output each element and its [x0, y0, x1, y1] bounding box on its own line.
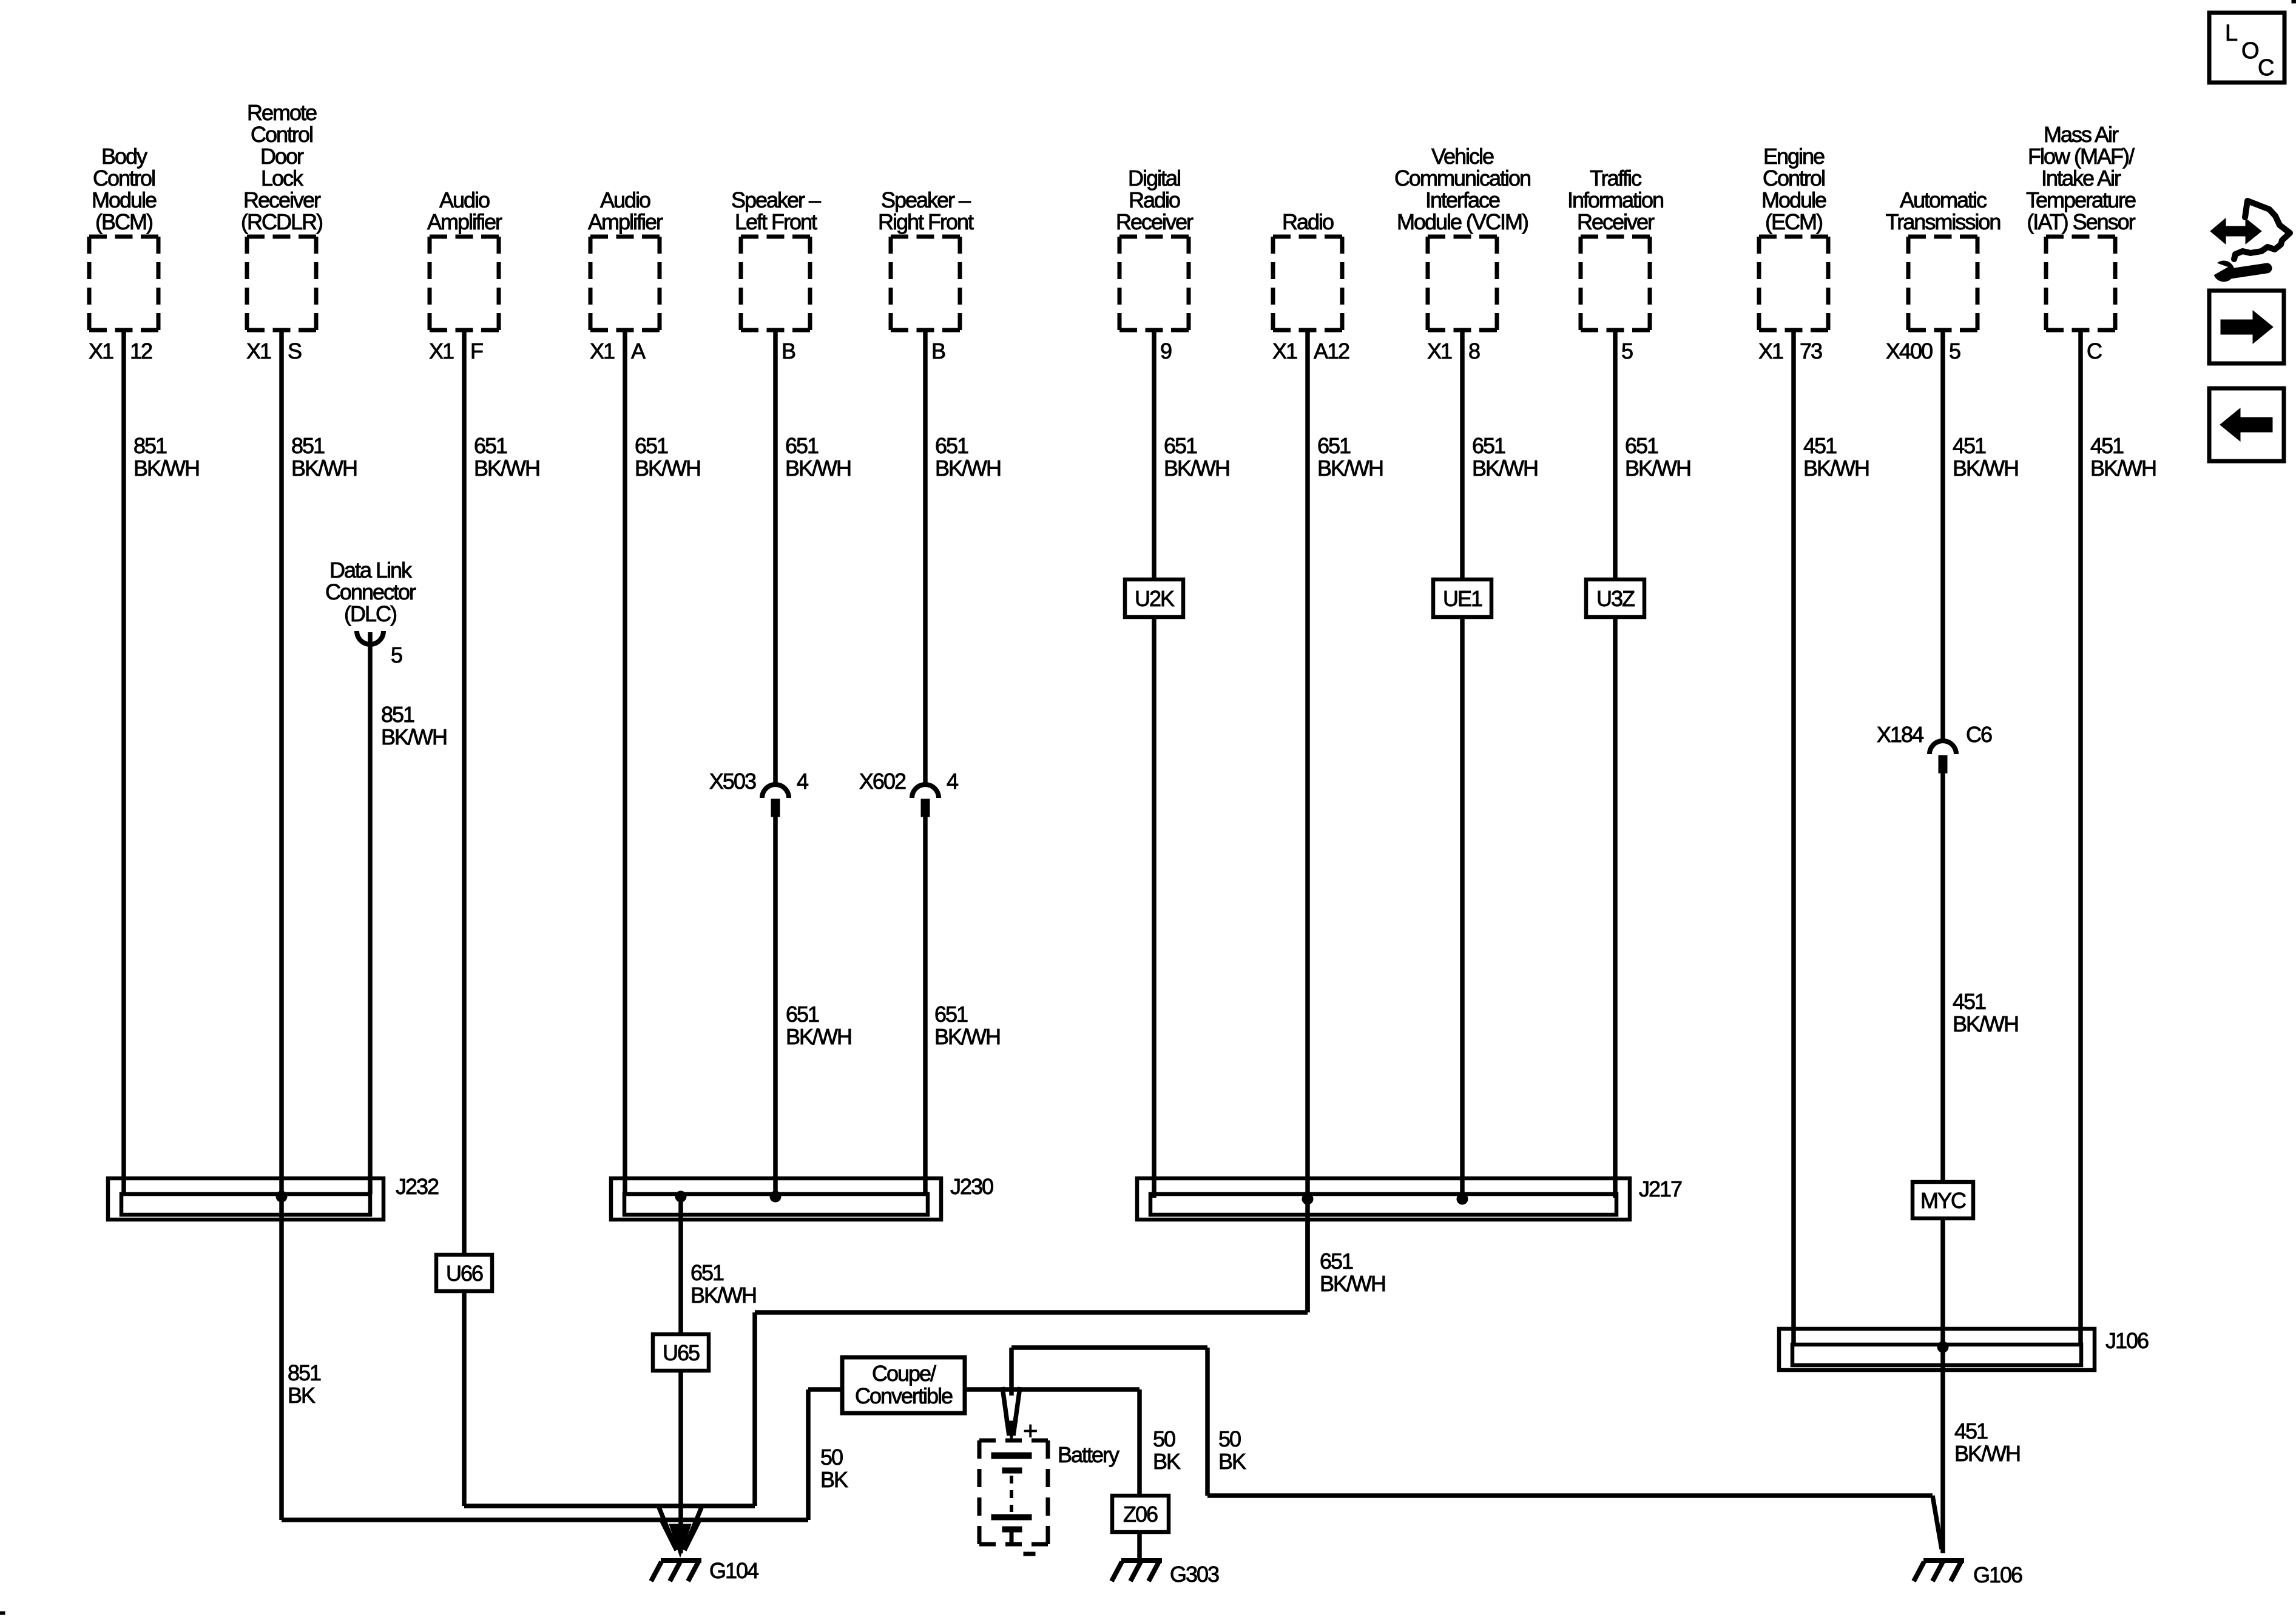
svg-text:BK/WH: BK/WH [635, 456, 700, 481]
wire 651 BK/WH from J230 to U65 [678, 1198, 683, 1334]
svg-text:451: 451 [2090, 433, 2124, 458]
label box Coupe/Convertible [842, 1357, 965, 1413]
svg-text:G104: G104 [709, 1558, 758, 1583]
connector module Speaker - Right Front [878, 187, 974, 363]
svg-text:U66: U66 [446, 1261, 483, 1286]
wire 50 BK Z06 vertical upper [1137, 1389, 1142, 1496]
svg-text:Body: Body [101, 144, 147, 169]
svg-text:9: 9 [1160, 339, 1172, 363]
svg-text:651: 651 [1472, 433, 1505, 458]
wire 651 BK/WH down to G104 bus [752, 1312, 757, 1506]
wire label 651 BK/WH below X602 [934, 1002, 1000, 1049]
node splice J230 dot B [770, 1191, 781, 1202]
connector module Traffic Information Receiver [1567, 166, 1663, 363]
svg-text:+: + [1023, 1416, 1038, 1445]
option code UE1 [1433, 579, 1491, 617]
wire label 651 BK/WH below J217 [1320, 1249, 1385, 1296]
connector X602 pin 4 [912, 785, 939, 817]
svg-text:651: 651 [1164, 433, 1197, 458]
wire 651 BK/WH Speaker RF lower [923, 817, 928, 1194]
svg-text:Engine: Engine [1763, 144, 1825, 169]
svg-text:651: 651 [474, 433, 507, 458]
svg-text:U3Z: U3Z [1596, 586, 1635, 611]
page artifact bottom left [0, 1612, 5, 1615]
svg-text:651: 651 [1625, 433, 1658, 458]
svg-text:Automatic: Automatic [1900, 187, 1987, 212]
svg-text:(DLC): (DLC) [344, 601, 396, 626]
wire 50 BK Coupe left horizontal [808, 1387, 842, 1392]
svg-text:Audio: Audio [439, 187, 490, 212]
wire label 451 BK/WH below J106 [1954, 1419, 2020, 1466]
svg-text:Control: Control [1763, 166, 1825, 191]
wire 451 BK/WH from ECM to J106 [1791, 330, 1796, 1345]
junction slants converging into G104 [658, 1506, 702, 1557]
wire 651 BK/WH U3Z to J217 [1613, 617, 1618, 1198]
svg-text:BK/WH: BK/WH [291, 456, 357, 481]
option code U3Z [1586, 579, 1644, 617]
svg-text:(BCM): (BCM) [95, 209, 152, 234]
svg-text:BK/WH: BK/WH [474, 456, 539, 481]
svg-text:U2K: U2K [1135, 586, 1175, 611]
wire label 451 BK/WH at x=2956 [1803, 433, 1869, 481]
svg-text:BK/WH: BK/WH [1625, 456, 1690, 481]
svg-text:X1: X1 [590, 339, 615, 363]
svg-text:651: 651 [1317, 433, 1351, 458]
svg-text:A12: A12 [1314, 339, 1349, 363]
wire label 651 BK/WH at x=1278 [785, 433, 851, 481]
connector module Speaker - Left Front [731, 187, 821, 363]
wire label 851 BK/WH at x=204 [133, 433, 199, 481]
svg-text:X1: X1 [246, 339, 271, 363]
connector module Audio Amplifier [427, 187, 502, 363]
wire label 50 BK coupe left [820, 1445, 848, 1492]
svg-text:BK/WH: BK/WH [786, 1024, 851, 1049]
wire label 651 BK/WH at x=2410 [1472, 433, 1538, 481]
wire slant into G106 [1933, 1496, 1942, 1549]
wire label 451 BK/WH at x=3429 [2090, 433, 2156, 481]
svg-text:BK/WH: BK/WH [133, 456, 199, 481]
wire 651 BK/WH horizontal run from J217 leftward [755, 1310, 1308, 1315]
svg-text:651: 651 [690, 1260, 724, 1285]
svg-text:Interface: Interface [1425, 187, 1500, 212]
wire label 50 BK at drop [1218, 1426, 1246, 1474]
wire 50 BK Coupe right horizontal to Z06 [965, 1387, 1140, 1392]
node splice J232 dot [276, 1191, 287, 1202]
svg-text:Traffic: Traffic [1590, 166, 1642, 191]
svg-text:BK/WH: BK/WH [935, 456, 1001, 481]
wire 651 BK/WH Speaker RF upper [923, 330, 928, 785]
svg-text:Coupe/: Coupe/ [872, 1361, 936, 1386]
node splice J217 dot A [1302, 1193, 1313, 1204]
svg-text:451: 451 [1953, 433, 1986, 458]
svg-text:Remote: Remote [247, 100, 317, 125]
svg-text:B: B [931, 339, 945, 363]
svg-text:73: 73 [1800, 339, 1822, 363]
ground G303 symbol [1112, 1561, 1162, 1581]
svg-text:F: F [470, 339, 483, 363]
connector X184 pin C6 [1930, 741, 1956, 773]
svg-text:Amplifier: Amplifier [588, 209, 663, 234]
svg-text:Digital: Digital [1128, 166, 1180, 191]
svg-text:4: 4 [797, 769, 808, 794]
wire 50 BK vertical drop [1205, 1348, 1210, 1496]
svg-text:BK/WH: BK/WH [1803, 456, 1869, 481]
svg-text:X1: X1 [429, 339, 454, 363]
svg-text:Left Front: Left Front [735, 209, 817, 234]
svg-text:Module (VCIM): Module (VCIM) [1397, 209, 1528, 234]
wire label 451 BK/WH below X184 [1953, 989, 2018, 1036]
svg-text:651: 651 [934, 1002, 968, 1027]
svg-text:Speaker –: Speaker – [881, 187, 971, 212]
svg-text:12: 12 [130, 339, 152, 363]
svg-text:651: 651 [935, 433, 968, 458]
svg-text:50: 50 [820, 1445, 843, 1470]
svg-text:4: 4 [947, 769, 958, 794]
wire 651 BK/WH from Audio Amplifier X1-F to U66 [462, 330, 467, 1255]
svg-text:BK/WH: BK/WH [381, 724, 447, 749]
connector module Audio Amplifier [588, 187, 663, 363]
wire label 651 BK/WH at x=765 [474, 433, 539, 481]
svg-text:Lock: Lock [261, 166, 304, 191]
wire label 651 BK/WH at x=1525 [935, 433, 1001, 481]
wire 651 BK/WH Speaker LF lower [773, 817, 778, 1194]
svg-text:Mass Air: Mass Air [2044, 122, 2119, 147]
wire 651 BK/WH VCIM to UE1 [1460, 330, 1465, 579]
connector module Body Control Module (BCM) [89, 144, 158, 363]
wire 651 BK/WH from J217 down [1305, 1218, 1310, 1312]
svg-text:(IAT) Sensor: (IAT) Sensor [2027, 209, 2135, 234]
svg-text:S: S [288, 339, 302, 363]
svg-text:C: C [2258, 55, 2274, 81]
svg-text:X400: X400 [1886, 339, 1933, 363]
svg-text:BK/WH: BK/WH [2090, 456, 2156, 481]
svg-text:BK: BK [1153, 1449, 1181, 1474]
svg-text:Data Link: Data Link [329, 558, 413, 582]
wire 651 BK/WH Digital Radio Receiver to U2K [1152, 330, 1156, 579]
legend forward arrow box [2209, 291, 2284, 363]
svg-text:851: 851 [291, 433, 325, 458]
splice pack J217 [1137, 1176, 1682, 1220]
connector X503 pin 4 [762, 785, 789, 817]
wire label 651 BK/WH below J230 [690, 1260, 756, 1308]
svg-text:851: 851 [381, 702, 414, 727]
svg-text:L: L [2225, 21, 2237, 46]
svg-text:X1: X1 [1272, 339, 1297, 363]
svg-text:X184: X184 [1877, 722, 1923, 747]
wire 651 BK/WH from Audio Amplifier X1-A to J230 [623, 330, 627, 1194]
svg-text:Radio: Radio [1282, 209, 1334, 234]
svg-text:651: 651 [785, 433, 819, 458]
svg-text:5: 5 [1949, 339, 1960, 363]
svg-text:BK/WH: BK/WH [785, 456, 851, 481]
svg-text:BK/WH: BK/WH [690, 1283, 756, 1308]
svg-text:Information: Information [1567, 187, 1663, 212]
wire 451 BK/WH Automatic Transmission to X184 [1940, 330, 1945, 741]
svg-text:Intake Air: Intake Air [2041, 166, 2121, 191]
legend connector-service icon [2209, 201, 2290, 282]
wire label 651 BK/WH at x=2155 [1317, 433, 1383, 481]
svg-text:5: 5 [1621, 339, 1633, 363]
svg-text:BK/WH: BK/WH [1953, 1011, 2018, 1036]
svg-text:Z06: Z06 [1123, 1502, 1158, 1527]
svg-text:B: B [782, 339, 795, 363]
svg-text:50: 50 [1218, 1426, 1241, 1451]
svg-text:X1: X1 [1758, 339, 1783, 363]
svg-text:O: O [2241, 38, 2258, 64]
svg-text:X1: X1 [89, 339, 113, 363]
wire label 451 BK/WH at x=3202 [1953, 433, 2018, 481]
svg-text:(RCDLR): (RCDLR) [241, 209, 322, 234]
svg-text:651: 651 [635, 433, 668, 458]
svg-text:X503: X503 [709, 769, 756, 794]
svg-text:U65: U65 [663, 1340, 700, 1365]
wire 651 BK/WH U2K to J217 [1152, 617, 1156, 1198]
svg-text:Amplifier: Amplifier [427, 209, 502, 234]
svg-text:X1: X1 [1427, 339, 1452, 363]
wire battery positive stub [1009, 1348, 1014, 1396]
wire label 651 BK/WH at x=1902 [1164, 433, 1229, 481]
svg-text:Battery: Battery [1058, 1442, 1119, 1467]
svg-text:451: 451 [1954, 1419, 1988, 1443]
connector Data Link Connector DLC [325, 558, 416, 667]
svg-text:C6: C6 [1966, 722, 1992, 747]
svg-text:MYC: MYC [1920, 1188, 1966, 1213]
wire label 651 BK/WH below X503 [786, 1002, 851, 1049]
svg-text:UE1: UE1 [1443, 586, 1482, 611]
svg-text:BK/WH: BK/WH [1164, 456, 1229, 481]
wire 851 BK/WH from RCDLR through J232 to lower bus [279, 330, 284, 1520]
battery [979, 1416, 1119, 1556]
svg-text:451: 451 [1953, 989, 1986, 1014]
wire label 851 BK/WH from DLC [381, 702, 447, 749]
svg-text:851: 851 [288, 1360, 321, 1385]
wire 851 BK/WH from DLC to J232 [368, 632, 373, 1194]
wire 651 BK/WH Traffic Info Receiver to U3Z [1613, 330, 1618, 579]
wire label 50 BK at Z06 [1153, 1426, 1181, 1474]
connector module Engine Control Module (ECM) [1758, 144, 1828, 363]
splice pack J230 [611, 1174, 993, 1220]
svg-text:BK/WH: BK/WH [1954, 1441, 2020, 1466]
svg-text:BK: BK [288, 1383, 316, 1408]
svg-text:J232: J232 [396, 1174, 439, 1199]
svg-text:C: C [2087, 339, 2102, 363]
wire 50 BK long horizontal run to G106 [1207, 1493, 1933, 1498]
svg-text:Transmission: Transmission [1886, 209, 2001, 234]
svg-text:A: A [631, 339, 646, 363]
wire label 851 BK below J232 [288, 1360, 321, 1408]
wire 451 BK/WH X184 to MYC [1940, 770, 1945, 1182]
svg-text:Control: Control [251, 122, 312, 147]
option code MYC [1913, 1182, 1973, 1218]
node splice J106 dot [1937, 1342, 1948, 1352]
wire 50 BK Z06 to G303 [1137, 1532, 1142, 1561]
svg-text:Receiver: Receiver [1116, 209, 1194, 234]
battery positive converging arrow [1002, 1387, 1020, 1440]
svg-text:J217: J217 [1639, 1176, 1682, 1201]
svg-text:Receiver: Receiver [243, 187, 321, 212]
svg-text:651: 651 [786, 1002, 819, 1027]
option code Z06 [1112, 1496, 1169, 1532]
wire 651 BK/WH UE1 to J217 [1460, 617, 1465, 1198]
svg-text:BK: BK [1218, 1449, 1246, 1474]
svg-text:BK/WH: BK/WH [1317, 456, 1383, 481]
ground G106 symbol [1914, 1561, 1964, 1581]
wire label 851 BK/WH at x=464 [291, 433, 357, 481]
svg-text:851: 851 [133, 433, 167, 458]
svg-text:J106: J106 [2105, 1328, 2149, 1353]
wire 651 BK from U66 down [462, 1291, 467, 1506]
svg-text:Radio: Radio [1129, 187, 1180, 212]
ground G104 symbol [651, 1561, 701, 1581]
svg-text:G106: G106 [1973, 1562, 2022, 1587]
wire 651 BK/WH Radio through J217 [1305, 330, 1310, 1312]
svg-text:Communication: Communication [1394, 166, 1530, 191]
svg-text:Temperature: Temperature [2026, 187, 2136, 212]
svg-text:Vehicle: Vehicle [1431, 144, 1494, 169]
legend LOC box [2209, 13, 2284, 83]
connector X184 labels [1877, 722, 1992, 747]
svg-text:5: 5 [391, 643, 402, 667]
svg-text:Control: Control [93, 166, 155, 191]
svg-text:G303: G303 [1170, 1562, 1219, 1587]
legend back arrow box [2209, 388, 2284, 461]
svg-text:Door: Door [260, 144, 304, 169]
wire 50 BK battery horizontal [1011, 1345, 1207, 1350]
svg-text:451: 451 [1803, 433, 1837, 458]
option code U66 [436, 1255, 492, 1291]
wire 651 BK/WH Speaker LF upper [773, 330, 778, 785]
svg-text:Speaker –: Speaker – [731, 187, 821, 212]
connector module Vehicle Communication Interface Module (VCIM) [1394, 144, 1530, 363]
svg-text:Right Front: Right Front [878, 209, 974, 234]
node splice J217 dot B [1457, 1193, 1468, 1204]
svg-text:BK: BK [820, 1467, 848, 1492]
connector module Remote Control Door Lock Receiver (RCDLR) [241, 100, 322, 363]
svg-text:J230: J230 [950, 1174, 993, 1199]
connector module Radio [1272, 209, 1349, 363]
svg-text:8: 8 [1468, 339, 1480, 363]
svg-text:Audio: Audio [600, 187, 650, 212]
svg-text:Convertible: Convertible [855, 1383, 953, 1408]
svg-text:Receiver: Receiver [1577, 209, 1655, 234]
splice pack J106 [1779, 1328, 2149, 1370]
svg-text:BK/WH: BK/WH [1320, 1271, 1385, 1296]
wire label 651 BK/WH at x=1030 [635, 433, 700, 481]
node splice J230 dot A [675, 1191, 686, 1202]
option code U2K [1125, 579, 1183, 617]
connector module Automatic Transmission [1886, 187, 2001, 363]
connector X503 labels [709, 769, 808, 794]
svg-text:Module: Module [1761, 187, 1826, 212]
wire label 651 BK/WH at x=2662 [1625, 433, 1690, 481]
svg-text:BK/WH: BK/WH [1953, 456, 2018, 481]
wire 451 BK/WH from MAF IAT sensor to J106 [2078, 330, 2083, 1345]
wire from U65 to G104 [678, 1371, 683, 1553]
svg-text:BK/WH: BK/WH [1472, 456, 1538, 481]
svg-text:X602: X602 [859, 769, 906, 794]
wire 651 BK upper bus to G104 [464, 1504, 755, 1508]
wire 851 BK/WH from BCM [121, 330, 126, 1194]
svg-text:BK/WH: BK/WH [934, 1024, 1000, 1049]
svg-text:Flow (MAF)/: Flow (MAF)/ [2028, 144, 2135, 169]
wire 851 BK lower bus to G104 [282, 1517, 808, 1522]
svg-text:(ECM): (ECM) [1765, 209, 1822, 234]
svg-text:50: 50 [1153, 1426, 1175, 1451]
connector X602 labels [859, 769, 958, 794]
wire 451 BK/WH MYC through J106 to G106 [1940, 1218, 1945, 1553]
svg-text:651: 651 [1320, 1249, 1353, 1274]
wire 50 BK Coupe left vertical [806, 1389, 811, 1520]
svg-text:Connector: Connector [325, 579, 416, 604]
splice pack J232 [108, 1174, 439, 1220]
connector module Mass Air Flow (MAF)/ Intake Air Temperature (IAT) Sensor [2026, 122, 2136, 363]
svg-text:Module: Module [92, 187, 157, 212]
option code U65 [653, 1334, 709, 1371]
page artifact top right [2292, 0, 2296, 3]
connector module Digital Radio Receiver [1116, 166, 1194, 363]
